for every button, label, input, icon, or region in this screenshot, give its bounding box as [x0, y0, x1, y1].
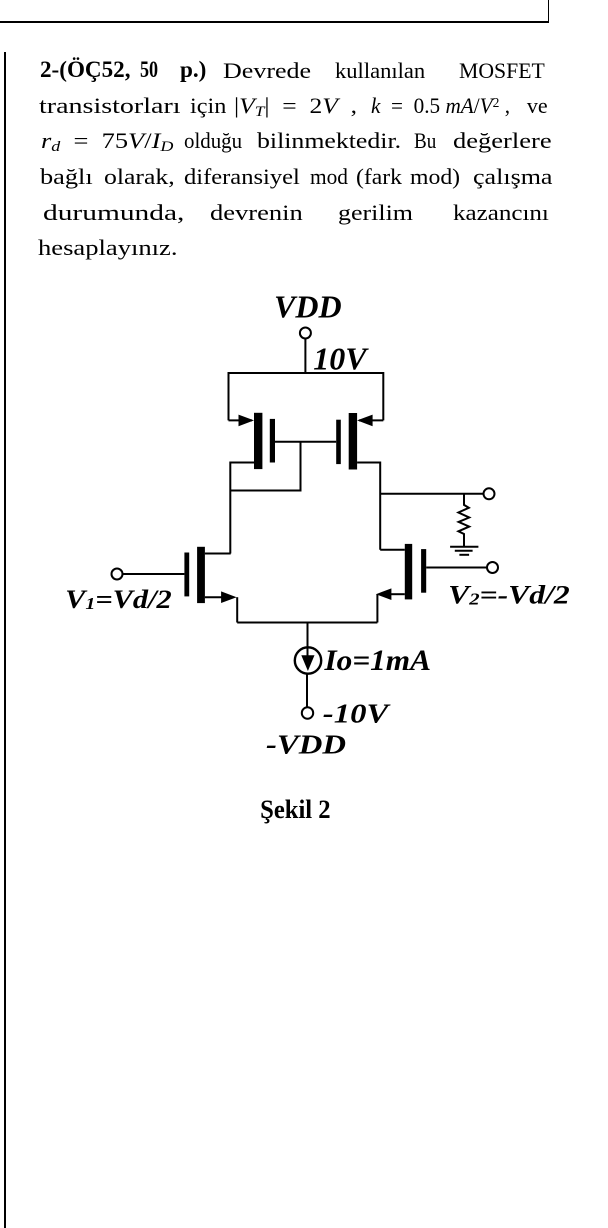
node V1 terminal — [112, 569, 123, 580]
svg-text:-VDD: -VDD — [266, 730, 346, 760]
node V2 terminal — [487, 562, 498, 573]
wire gate M3-M4 — [275, 441, 336, 443]
wire M2 drain — [380, 549, 405, 551]
svg-text:VDD: VDD — [274, 289, 342, 325]
svg-text:10V: 10V — [313, 341, 369, 377]
resistor R1 — [458, 494, 469, 547]
paragraph problem statement — [0, 0, 608, 1]
wire top rail — [229, 373, 384, 420]
wire to -VDD terminal — [306, 674, 308, 707]
transistor M3 PMOS left — [229, 413, 276, 469]
ground — [450, 547, 478, 555]
transistor M1 NMOS left — [184, 547, 205, 603]
wire M1 gate — [123, 573, 185, 575]
wire M2 source — [376, 588, 405, 622]
node -VDD terminal — [302, 707, 313, 718]
svg-text:V2=-Vd/2: V2=-Vd/2 — [448, 581, 570, 610]
node output terminal — [484, 488, 495, 499]
transistor M2 NMOS right — [405, 544, 426, 600]
top frame (bottom edge of a box above) — [0, 21, 549, 23]
wire M3 drain — [230, 463, 254, 554]
transistor M4 PMOS right — [336, 413, 383, 470]
node VDD terminal — [300, 328, 311, 339]
wire M2 gate — [426, 567, 487, 569]
left margin rule — [4, 52, 6, 1228]
wire M1 drain — [205, 553, 231, 555]
wire tail rail — [237, 622, 377, 624]
svg-text:Io=1mA: Io=1mA — [323, 644, 431, 677]
svg-text:Şekil 2: Şekil 2 — [260, 795, 331, 824]
wire diode tie — [230, 442, 300, 491]
wire VDD to rail — [304, 339, 306, 375]
svg-text:V1=Vd/2: V1=Vd/2 — [65, 585, 171, 614]
wire output — [380, 493, 483, 495]
wire M4 drain — [357, 463, 380, 550]
wire M1 source — [205, 591, 237, 622]
svg-text:-10V: -10V — [323, 699, 391, 729]
current source Io — [295, 623, 321, 674]
